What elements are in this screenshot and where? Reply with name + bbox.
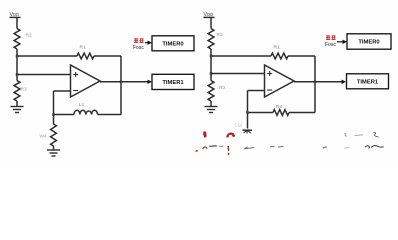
svg-text:TIMER1: TIMER1 [357,80,379,86]
svg-text:Fosc: Fosc [133,45,144,51]
resistor R4 (feedback) [273,110,289,116]
resistor R3 (from VDD) [208,29,214,50]
wire: op-amp output to TIMER1 [294,81,342,83]
wire: inverting input [248,91,265,113]
svg-text:TIMER0: TIMER0 [358,40,379,46]
power VDD (right) [204,17,215,28]
svg-text:R2: R2 [26,33,32,39]
wire: right feedback vertical [120,56,122,115]
wire: top feedback line [211,55,315,57]
node: junction dots [16,55,123,116]
svg-text:R3: R3 [219,85,225,91]
op-amp U2 [265,65,295,97]
wire: bottom feedback line [54,114,122,116]
svg-text:R3: R3 [21,87,27,93]
op-amp U1 [71,65,101,97]
svg-text:R1: R1 [274,45,280,51]
inductor L1 (feedback) [74,110,98,114]
resistor R1 (feedback) [271,53,288,59]
wire: inverting input [54,91,71,115]
wire: non-inverting input [17,74,71,76]
resistor R2 (from VDD) [14,29,20,50]
block TIMER0 [152,36,194,51]
wire: non-inverting input [211,73,265,75]
label: system Fosc clock [134,38,138,43]
wire: Fosc arrow into TIMER0 [145,42,148,44]
svg-text:Fosc: Fosc [325,42,336,48]
svg-text:W4: W4 [40,134,48,140]
resistor R4 (inverting node to ground) [53,115,55,125]
wire: Fosc arrow into TIMER0 [337,41,343,43]
ground (under R3) [11,107,24,113]
wire: bottom feedback line [248,112,316,114]
watermark: red stamp strokes (bottom centre) [195,131,254,155]
svg-text:TIMER1: TIMER1 [162,80,184,86]
power VDD (left) [10,17,21,28]
svg-text:R4: R4 [276,104,282,110]
capacitor C1 (inverting node to ground) [247,113,249,129]
svg-text:R3: R3 [217,32,223,38]
label: system Fosc clock [326,35,330,40]
svg-text:C1s: C1s [235,123,243,128]
wire: top feedback line [17,55,121,57]
wire: right feedback vertical [314,56,316,113]
svg-text:TIMER0: TIMER0 [162,42,183,48]
block TIMER1 [152,74,194,89]
resistor R3 (to ground) [208,81,214,102]
wire: op-amp output to TIMER1 [100,81,148,83]
ground (under R4) [47,150,60,156]
svg-text:R1: R1 [80,45,86,51]
svg-text:L1: L1 [79,102,85,108]
node: junction dots [210,55,317,114]
wire: main left vertical [16,49,18,81]
resistor R1 (feedback) [77,53,94,59]
wire: main left vertical [210,49,212,81]
block TIMER0 [347,34,391,49]
resistor R3 (to ground) [14,81,20,102]
watermark: faint pencil scribbles (bottom right) [270,132,384,148]
block TIMER1 [347,74,389,89]
ground (under R3) [205,107,218,113]
